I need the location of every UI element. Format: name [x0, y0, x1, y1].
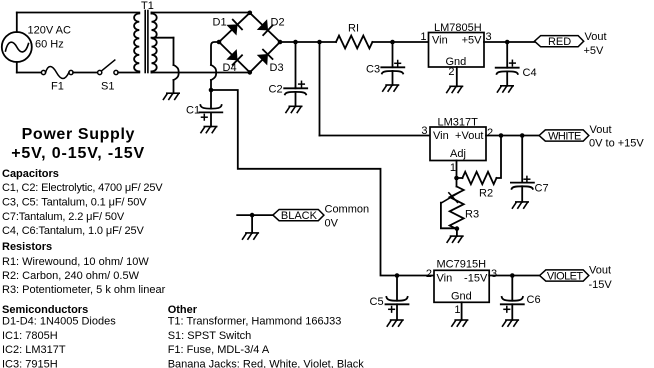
svg-text:C6: C6	[527, 294, 541, 306]
svg-text:Adj: Adj	[450, 148, 466, 160]
ground C7	[512, 202, 528, 208]
potentiometer R3 5k	[450, 187, 464, 230]
svg-text:Capacitors: Capacitors	[2, 168, 59, 180]
ground C5	[387, 320, 403, 326]
svg-text:1: 1	[420, 31, 426, 43]
wire AC source bottom	[16, 62, 18, 73]
wire common ground	[251, 215, 253, 233]
regulator U1 LM7805H	[429, 33, 485, 68]
svg-text:R2: Carbon, 240 ohm/ 0.5W: R2: Carbon, 240 ohm/ 0.5W	[2, 270, 140, 282]
svg-text:3: 3	[491, 268, 497, 280]
label Common 0V	[325, 204, 370, 230]
svg-text:WHITE: WHITE	[548, 131, 581, 143]
svg-text:R3: Potentiometer, 5 k ohm lin: R3: Potentiometer, 5 k ohm linear	[2, 284, 166, 296]
wire fuse to switch	[73, 72, 98, 74]
resistor R2 240 ohm	[457, 136, 502, 185]
svg-text:BLACK: BLACK	[281, 210, 318, 222]
svg-text:C7:Tantalum, 2.2 μF/ 50V: C7:Tantalum, 2.2 μF/ 50V	[2, 211, 125, 223]
svg-text:C3, C5: Tantalum, 0.1 μF/ 50V: C3, C5: Tantalum, 0.1 μF/ 50V	[2, 196, 147, 208]
regulator U3 MC7915H	[434, 270, 489, 302]
wire U3 output	[489, 275, 539, 277]
node negative rail junction	[209, 88, 214, 93]
banana jack BLACK	[273, 210, 324, 223]
transformer T1	[134, 11, 157, 73]
svg-text:0V to +15V: 0V to +15V	[589, 138, 644, 150]
ground C2	[286, 106, 302, 112]
svg-text:D1: D1	[213, 17, 227, 29]
svg-text:Vin: Vin	[433, 130, 449, 142]
node LM317 feed tap	[317, 40, 322, 45]
wire C3 tap down	[392, 42, 394, 67]
svg-text:D1-D4: 1N4005 Diodes: D1-D4: 1N4005 Diodes	[2, 316, 116, 328]
node C4 tap	[505, 40, 510, 45]
diode D3	[258, 50, 273, 65]
svg-text:C5: C5	[370, 296, 384, 308]
wire switch to transformer	[118, 72, 139, 74]
svg-text:Vout: Vout	[585, 31, 607, 43]
ground C6	[503, 320, 519, 326]
svg-text:C4: C4	[523, 67, 537, 79]
parts list capacitors	[2, 168, 163, 237]
parts list semiconductors	[2, 304, 116, 368]
title Power Supply	[11, 126, 145, 162]
node bridge right	[278, 40, 283, 45]
node C7 tap	[520, 133, 525, 138]
svg-text:D3: D3	[270, 62, 284, 74]
node C5 tap	[395, 273, 400, 278]
svg-text:S1: SPST Switch: S1: SPST Switch	[168, 330, 252, 342]
wire R3 to ground	[456, 229, 458, 237]
node adj junction	[454, 176, 459, 181]
svg-text:1: 1	[454, 304, 460, 316]
svg-text:T1: T1	[141, 0, 154, 12]
banana jack RED	[535, 36, 584, 49]
wire U2 output	[486, 135, 539, 137]
svg-text:T1: Transformer, Hammond 166J3: T1: Transformer, Hammond 166J33	[168, 316, 342, 328]
regulator U2 LM317T	[430, 127, 486, 161]
wire LM317 input	[320, 42, 431, 136]
fuse F1	[41, 67, 73, 79]
node bridge bottom	[248, 70, 253, 75]
svg-text:Other: Other	[168, 304, 198, 316]
svg-text:2: 2	[426, 268, 432, 280]
svg-text:60 Hz: 60 Hz	[35, 39, 64, 51]
svg-text:Common: Common	[325, 204, 370, 216]
svg-text:F1: Fuse, MDL-3/4 A: F1: Fuse, MDL-3/4 A	[168, 344, 270, 356]
svg-text:C1, C2: Electrolytic, 4700 μF/: C1, C2: Electrolytic, 4700 μF/ 25V	[2, 182, 163, 194]
resistor RI wirewound	[336, 36, 372, 49]
wire negative rail to 7915 section	[211, 90, 434, 276]
svg-text:IC3: 7915H: IC3: 7915H	[2, 358, 58, 368]
capacitor C2 4700uF	[284, 81, 307, 106]
node bridge top	[248, 11, 253, 16]
svg-text:LM7805H: LM7805H	[434, 22, 482, 34]
svg-text:-15V: -15V	[464, 273, 488, 285]
svg-text:R3: R3	[465, 209, 479, 221]
svg-text:RED: RED	[548, 36, 571, 48]
switch S1 SPST	[98, 60, 119, 75]
diode D4	[227, 50, 242, 65]
banana jack VIOLET	[540, 270, 589, 283]
svg-text:Vin: Vin	[432, 35, 448, 47]
svg-text:Vout: Vout	[589, 265, 611, 277]
ground C3	[383, 85, 399, 91]
svg-text:2: 2	[448, 66, 454, 78]
svg-text:+5V: +5V	[462, 35, 483, 47]
node R2 top tap	[499, 133, 504, 138]
capacitor C6 1.0uF	[501, 276, 524, 321]
wire to fuse	[17, 72, 42, 74]
AC source V1 120V AC 60Hz	[2, 32, 32, 62]
ground center tap	[163, 93, 179, 99]
svg-text:IC2: LM317T: IC2: LM317T	[2, 344, 66, 356]
node R3 bottom	[455, 226, 460, 231]
wire secondary bottom to bridge	[152, 72, 250, 73]
capacitor C3 0.1uF	[381, 61, 404, 86]
ground U3	[452, 320, 468, 326]
svg-text:Resistors: Resistors	[2, 241, 52, 253]
label Vout 0V to +15V	[589, 124, 644, 150]
wire AC source to top rail	[17, 13, 140, 33]
svg-text:3: 3	[421, 125, 427, 137]
wire U2 adj pin	[456, 161, 458, 187]
svg-text:2: 2	[487, 127, 493, 139]
diode D1	[228, 20, 243, 35]
ground common	[243, 233, 259, 239]
svg-text:Banana Jacks: Red, White, Viol: Banana Jacks: Red, White, Violet, Black	[168, 358, 365, 368]
svg-text:Vin: Vin	[437, 273, 453, 285]
capacitor C5 0.1uF	[386, 276, 409, 321]
svg-text:+5V: +5V	[584, 45, 605, 57]
banana jack WHITE	[539, 130, 589, 143]
svg-text:MC7915H: MC7915H	[437, 259, 487, 271]
parts list resistors	[2, 241, 166, 296]
wire common to BLACK jack	[237, 214, 273, 216]
svg-text:D2: D2	[271, 17, 285, 29]
R3 wiper arrow	[441, 192, 460, 203]
svg-text:C3: C3	[366, 64, 380, 76]
capacitor C4 1.0uF	[496, 60, 519, 86]
svg-text:1: 1	[450, 162, 456, 174]
ground C1	[201, 127, 217, 133]
svg-text:Vout: Vout	[590, 124, 612, 136]
svg-text:Gnd: Gnd	[451, 291, 472, 303]
svg-text:R1: Wirewound, 10 ohm/ 10W: R1: Wirewound, 10 ohm/ 10W	[2, 256, 149, 268]
svg-text:Power Supply: Power Supply	[22, 126, 135, 143]
parts list other	[168, 304, 365, 368]
wire bridge left vertex down (negative rail)	[211, 42, 219, 90]
node C3 tap	[390, 40, 395, 45]
svg-text:Semiconductors: Semiconductors	[2, 304, 88, 316]
svg-text:+5V, 0-15V, -15V: +5V, 0-15V, -15V	[11, 145, 145, 162]
svg-text:R2: R2	[479, 188, 493, 200]
svg-text:RI: RI	[348, 23, 359, 35]
svg-text:C4, C6:Tantalum, 1.0 μF/ 25V: C4, C6:Tantalum, 1.0 μF/ 25V	[2, 225, 145, 237]
wire U1 gnd pin	[456, 67, 458, 86]
svg-text:LM317T: LM317T	[438, 117, 479, 129]
wire C2 tap down	[295, 42, 297, 87]
bridge rectifier edges	[219, 13, 280, 73]
ground R3	[447, 236, 463, 242]
svg-text:+Vout: +Vout	[455, 130, 483, 142]
wire U1 output	[484, 41, 535, 43]
label Vout -15V	[589, 265, 613, 292]
wire center tap	[152, 38, 179, 93]
svg-text:0V: 0V	[325, 218, 339, 230]
svg-text:F1: F1	[51, 81, 64, 93]
svg-text:VIOLET: VIOLET	[547, 271, 583, 283]
node C6 tap	[510, 273, 515, 278]
label 120V AC 60 Hz	[28, 25, 71, 51]
ground C4	[497, 86, 513, 92]
svg-text:IC1: 7805H: IC1: 7805H	[2, 330, 58, 342]
ground U1	[447, 86, 463, 92]
wire secondary top to bridge	[152, 13, 250, 14]
svg-text:D4: D4	[223, 62, 237, 74]
node common ground tap	[250, 213, 255, 218]
svg-text:C2: C2	[269, 84, 283, 96]
svg-text:-15V: -15V	[589, 279, 613, 291]
wire U3 gnd pin	[461, 302, 463, 320]
svg-text:120V AC: 120V AC	[28, 25, 71, 37]
svg-text:S1: S1	[101, 81, 114, 93]
diode D2	[258, 20, 273, 35]
svg-text:C1: C1	[186, 105, 200, 117]
node C2 tap	[293, 40, 298, 45]
wire C4 tap down	[506, 42, 508, 68]
capacitor C7 2.2uF	[511, 136, 534, 202]
svg-text:C7: C7	[535, 183, 549, 195]
label Vout +5V	[584, 31, 607, 57]
node bridge left	[217, 40, 222, 45]
capacitor C1 4700uF	[199, 90, 222, 127]
R3 wiper loop wire	[441, 203, 457, 229]
wire positive rail	[280, 41, 429, 43]
